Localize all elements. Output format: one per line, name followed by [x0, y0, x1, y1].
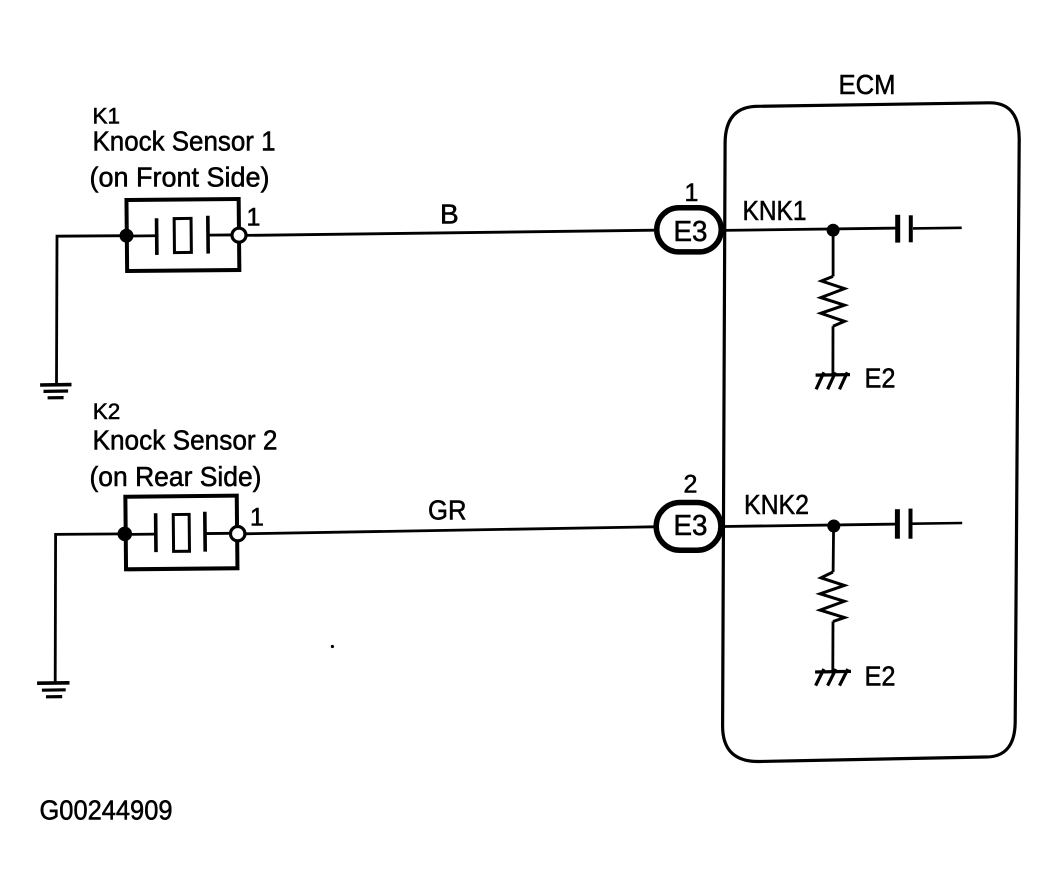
junction dot K1 left terminal	[120, 229, 134, 243]
svg-text:ECM: ECM	[839, 69, 896, 100]
svg-text:E3: E3	[674, 216, 708, 248]
svg-text:E2: E2	[865, 661, 896, 692]
knock sensor K1 label	[90, 103, 276, 192]
svg-text:KNK2: KNK2	[744, 489, 809, 520]
svg-text:GR: GR	[428, 494, 467, 525]
ink speck	[331, 645, 334, 648]
svg-text:E3: E3	[674, 510, 708, 542]
connector E3 pin 2	[656, 471, 721, 551]
ECM box	[723, 103, 1020, 762]
open terminal circle K2 pin 1	[231, 527, 245, 541]
junction dot K2 left terminal	[118, 527, 133, 542]
resistor R1	[821, 276, 845, 326]
svg-text:2: 2	[684, 471, 698, 499]
ground E2 (upper, chassis style)	[816, 372, 850, 389]
junction node KNK2	[827, 520, 840, 533]
open terminal circle K1 pin 1	[232, 228, 246, 242]
svg-text:E2: E2	[865, 362, 896, 393]
svg-text:Knock Sensor 1: Knock Sensor 1	[93, 126, 276, 157]
wire junction to resistor R1	[832, 230, 835, 276]
knock sensor K2 label	[90, 399, 278, 492]
svg-text:(on Rear Side): (on Rear Side)	[90, 461, 262, 492]
knock sensor K2	[125, 496, 237, 570]
svg-text:Knock Sensor 2: Knock Sensor 2	[93, 424, 278, 455]
svg-text:1: 1	[247, 204, 261, 232]
junction node KNK1	[827, 224, 840, 237]
svg-text:B: B	[440, 198, 459, 229]
svg-text:KNK1: KNK1	[743, 195, 807, 226]
knock sensor K1	[126, 199, 239, 271]
wire resistor R2 to ground	[831, 622, 834, 672]
ground (K1)	[40, 385, 71, 398]
wire GR (K2 to E3)	[245, 527, 654, 534]
ground (K2)	[37, 683, 69, 697]
resistor R2	[820, 572, 844, 622]
connector E3 pin 1	[657, 179, 722, 252]
wire K1 ground leg	[57, 236, 127, 384]
capacitor C2	[897, 509, 962, 539]
wire junction to resistor R2	[832, 526, 835, 572]
svg-text:(on Front Side): (on Front Side)	[90, 162, 270, 193]
ground E2 (lower, chassis style)	[815, 669, 851, 686]
wire resistor R1 to ground	[832, 326, 835, 375]
capacitor C1	[898, 215, 962, 243]
wire KNK2 (E3 to capacitor)	[724, 524, 896, 526]
svg-text:K2: K2	[93, 399, 121, 424]
wire B (K1 to E3)	[246, 230, 654, 235]
svg-text:G00244909: G00244909	[40, 795, 173, 826]
wire KNK1 (E3 to capacitor)	[724, 228, 896, 230]
svg-text:1: 1	[685, 179, 699, 207]
svg-text:1: 1	[250, 503, 264, 531]
wire K2 ground leg	[55, 534, 125, 682]
